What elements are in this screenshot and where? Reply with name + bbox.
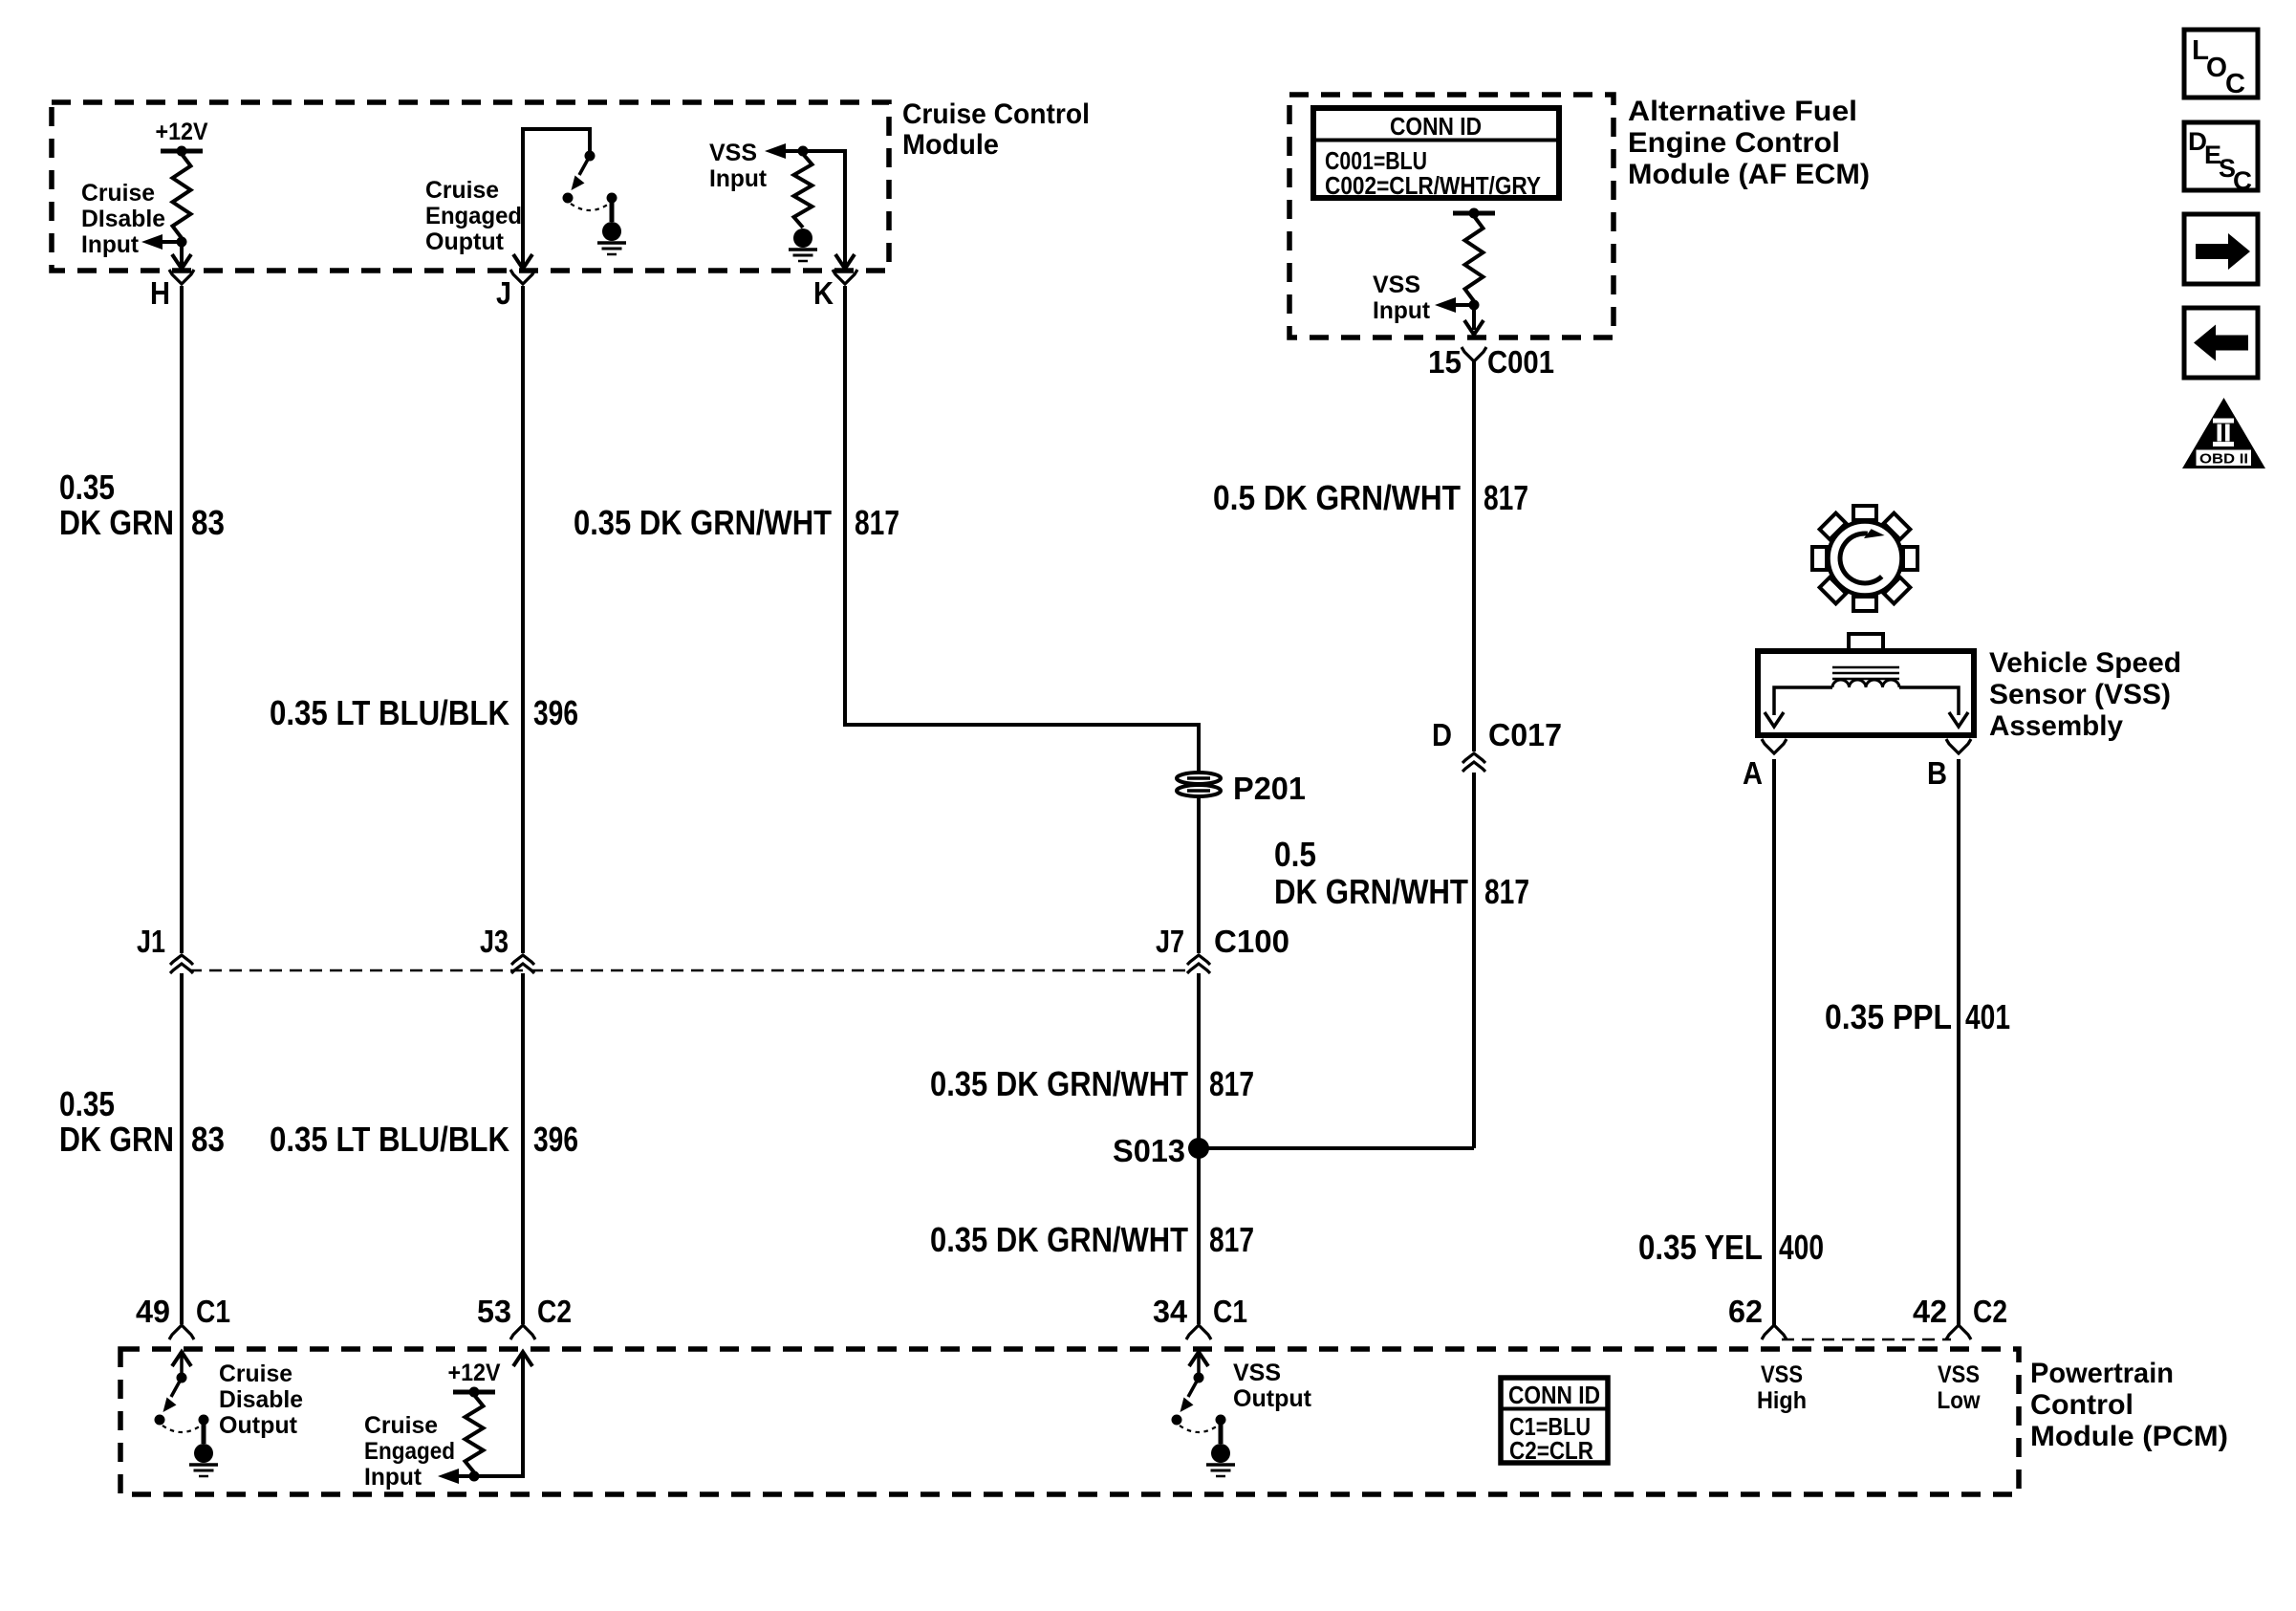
- svg-text:C: C: [2233, 166, 2252, 195]
- connector pin 15 of C001: [1462, 347, 1486, 361]
- connector pin 53 of PCM C2: [510, 1325, 535, 1339]
- node: cruise disable input junction: [177, 237, 187, 248]
- svg-text:Cruise: Cruise: [425, 177, 499, 204]
- resistor R-cruise-engaged (PCM): [466, 1395, 484, 1472]
- svg-text:Disable: Disable: [219, 1386, 303, 1413]
- svg-text:J: J: [496, 275, 511, 311]
- arrow: VSS Input (points left): [765, 143, 786, 159]
- connector pin 42 of PCM C2: [1946, 1325, 1971, 1339]
- VSS assembly body box: [1758, 651, 1974, 735]
- svg-text:817: 817: [1209, 1064, 1254, 1103]
- resistor R-cruise-disable (pull-up): [173, 154, 191, 238]
- connector pin H of C-cruise: [169, 270, 194, 284]
- svg-text:Module (PCM): Module (PCM): [2030, 1421, 2228, 1452]
- arrow: Cruise Disable Input (points left): [141, 234, 162, 250]
- svg-text:C001: C001: [1487, 344, 1554, 380]
- connector C017 inline (double chevron): [1462, 753, 1485, 763]
- svg-text:Cruise Control: Cruise Control: [902, 98, 1090, 130]
- svg-text:+12V: +12V: [156, 119, 208, 145]
- arrow to pin A (down): [1765, 712, 1784, 727]
- node: VSS input junction (AF ECM): [1469, 300, 1480, 311]
- svg-text:C2: C2: [537, 1294, 572, 1329]
- svg-text:83: 83: [191, 1120, 225, 1159]
- svg-text:Cruise: Cruise: [81, 180, 155, 207]
- arrow into J pin (down): [513, 254, 532, 269]
- resistor R-vss-input (AF ECM): [1465, 216, 1484, 301]
- junction dot on +12V rail (PCM): [469, 1387, 480, 1398]
- wire: J output top segment: [523, 129, 590, 271]
- svg-text:0.35: 0.35: [59, 468, 115, 507]
- wire 817: C017 down to S013 corner: [1472, 773, 1476, 1148]
- wire: pin49 arrow to switch pivot: [180, 1352, 184, 1375]
- svg-text:Module (AF ECM): Module (AF ECM): [1628, 159, 1870, 190]
- grommet P201: [1177, 773, 1221, 796]
- svg-text:Engaged: Engaged: [425, 203, 522, 229]
- svg-text:62: 62: [1728, 1294, 1763, 1329]
- svg-text:Vehicle Speed: Vehicle Speed: [1989, 647, 2181, 679]
- connector pin 62 of PCM: [1762, 1325, 1787, 1339]
- wire: pin34 arrow to switch pivot: [1197, 1352, 1201, 1375]
- module box: Alternative Fuel Engine Control Module (dashed): [1289, 95, 1614, 337]
- svg-text:396: 396: [533, 1120, 578, 1159]
- svg-text:0.35: 0.35: [59, 1084, 115, 1123]
- arrow into H pin (down): [172, 254, 191, 269]
- svg-text:DK GRN/WHT: DK GRN/WHT: [1274, 872, 1468, 911]
- svg-text:J3: J3: [480, 924, 509, 959]
- table: CONN ID (AF ECM): [1313, 108, 1559, 198]
- connector pin J of C-cruise: [510, 270, 535, 284]
- svg-text:42: 42: [1913, 1294, 1947, 1329]
- svg-text:D: D: [1432, 717, 1452, 752]
- svg-text:Output: Output: [219, 1412, 298, 1439]
- module box: Powertrain Control Module (dashed): [120, 1349, 2019, 1494]
- wire 817: S013 down to PCM pin 34: [1197, 1148, 1201, 1324]
- svg-text:401: 401: [1965, 997, 2010, 1036]
- switch: cruise disable output (PCM): [177, 1373, 187, 1383]
- svg-text:B: B: [1927, 755, 1947, 791]
- wire: H pin drop inside module: [180, 242, 184, 266]
- svg-text:Output: Output: [1233, 1385, 1312, 1412]
- svg-text:15: 15: [1428, 344, 1462, 380]
- svg-text:VSS: VSS: [1761, 1361, 1803, 1388]
- switch: VSS output (PCM): [1194, 1373, 1204, 1383]
- wire 817: K pin down then right to P201 drop: [845, 286, 1199, 773]
- svg-text:DK GRN: DK GRN: [59, 503, 174, 542]
- svg-text:817: 817: [1484, 872, 1529, 911]
- svg-text:C2: C2: [1973, 1294, 2007, 1329]
- arrow into PCM pin 53 (up): [513, 1352, 532, 1366]
- svg-text:DIsable: DIsable: [81, 206, 165, 232]
- svg-text:817: 817: [1209, 1220, 1254, 1259]
- VSS pole piece lines: [1832, 666, 1899, 669]
- svg-text:A: A: [1743, 755, 1763, 791]
- arrow into pin 15 (down): [1464, 320, 1484, 335]
- svg-text:34: 34: [1153, 1294, 1188, 1329]
- VSS sensor tab: [1849, 634, 1883, 651]
- svg-text:OBD II: OBD II: [2199, 452, 2248, 468]
- svg-text:Low: Low: [1938, 1387, 1981, 1414]
- connector J7 inline (double chevron): [1187, 955, 1210, 965]
- table: CONN ID (PCM): [1501, 1378, 1608, 1463]
- svg-text:Control: Control: [2030, 1389, 2134, 1421]
- svg-text:Assembly: Assembly: [1989, 710, 2123, 742]
- svg-text:Powertrain: Powertrain: [2030, 1358, 2174, 1389]
- svg-text:Ouptut: Ouptut: [425, 229, 505, 255]
- icon: LOC box: [2184, 30, 2258, 98]
- wire: S013 horizontal branch: [1199, 1146, 1474, 1150]
- wire: coil right lead to pin B: [1899, 687, 1959, 715]
- wire 817: J7 down to S013: [1197, 973, 1201, 1148]
- arrow to pin B (down): [1949, 712, 1968, 727]
- svg-text:49: 49: [136, 1294, 170, 1329]
- rail: VSS input pull-up (AF ECM): [1453, 211, 1495, 216]
- svg-text:817: 817: [855, 503, 899, 542]
- svg-text:Input: Input: [1373, 297, 1431, 324]
- junction dot on VSS input line: [798, 146, 809, 157]
- icon: forward arrow box: [2184, 214, 2258, 284]
- svg-text:Module: Module: [902, 129, 999, 161]
- svg-text:53: 53: [477, 1294, 511, 1329]
- +12V rail (PCM): [453, 1390, 495, 1395]
- wire: to VSS input arrow: [784, 149, 807, 153]
- connector pin B of VSS: [1946, 739, 1971, 753]
- svg-text:C2=CLR: C2=CLR: [1509, 1436, 1593, 1465]
- inductor coil: VSS pickup: [1832, 680, 1899, 687]
- svg-text:+12V: +12V: [448, 1360, 501, 1386]
- wire 817: C001 pin 15 down to C017: [1472, 359, 1476, 751]
- wire: coil left lead to pin A: [1774, 687, 1832, 715]
- svg-text:Engaged: Engaged: [364, 1438, 455, 1465]
- svg-text:J1: J1: [137, 924, 165, 959]
- svg-text:VSS: VSS: [1938, 1361, 1980, 1388]
- svg-text:O: O: [2206, 53, 2227, 83]
- svg-text:C1: C1: [196, 1294, 230, 1329]
- arrow into K pin (down): [835, 254, 855, 269]
- arrow into PCM pin 49 (up): [172, 1352, 191, 1366]
- svg-text:Cruise: Cruise: [364, 1412, 438, 1439]
- icon: back arrow box: [2184, 308, 2258, 378]
- wire 396: J pin down to J3: [521, 286, 525, 953]
- wire: junction to left arrow (PCM): [457, 1474, 474, 1478]
- arrow: VSS Input AF ECM (points left): [1435, 297, 1456, 313]
- svg-text:H: H: [150, 275, 170, 311]
- splice S013: [1188, 1138, 1209, 1159]
- svg-text:VSS: VSS: [709, 140, 757, 166]
- gear: VSS reluctor wheel: [1812, 506, 1917, 611]
- svg-text:Engine Control: Engine Control: [1628, 127, 1840, 159]
- wire: K VSS input top segment: [807, 151, 845, 271]
- svg-text:396: 396: [533, 693, 578, 732]
- svg-text:C002=CLR/WHT/GRY: C002=CLR/WHT/GRY: [1325, 171, 1541, 200]
- svg-text:P201: P201: [1233, 771, 1306, 806]
- ground: cruise module VSS input: [793, 229, 812, 248]
- svg-text:C1: C1: [1213, 1294, 1247, 1329]
- svg-text:0.35 LT BLU/BLK: 0.35 LT BLU/BLK: [270, 693, 509, 732]
- wire 83: H pin down to J1: [180, 286, 184, 953]
- svg-text:0.35 LT BLU/BLK: 0.35 LT BLU/BLK: [270, 1120, 509, 1159]
- svg-text:J7: J7: [1156, 924, 1184, 959]
- wire: junction to left arrow (AF ECM): [1455, 303, 1474, 307]
- svg-text:0.35 PPL: 0.35 PPL: [1825, 997, 1952, 1036]
- wire 401: VSS pin B down to PCM pin 42: [1957, 759, 1960, 1326]
- junction dot on +12V rail: [177, 146, 187, 157]
- resistor R-vss-input (cruise module): [794, 154, 812, 228]
- connector pin K of C-cruise: [833, 270, 857, 284]
- svg-text:VSS: VSS: [1373, 272, 1420, 298]
- connector J3 inline (double chevron): [511, 955, 534, 965]
- arrow into PCM pin 34 (up): [1189, 1352, 1208, 1366]
- svg-text:DK GRN: DK GRN: [59, 1120, 174, 1159]
- svg-text:817: 817: [1484, 478, 1528, 517]
- wire: junction right and up to pin 53: [474, 1352, 523, 1476]
- node: cruise engaged input junction: [469, 1471, 480, 1482]
- connector pin 49 of PCM C1: [169, 1325, 194, 1339]
- junction dot on rail (AF ECM): [1469, 208, 1480, 219]
- module box: Cruise Control Module (dashed): [52, 102, 889, 271]
- svg-text:0.35 DK GRN/WHT: 0.35 DK GRN/WHT: [930, 1064, 1188, 1103]
- svg-text:Cruise: Cruise: [219, 1361, 292, 1387]
- connector J1 inline (double chevron): [170, 955, 193, 965]
- connector pin 34 of PCM C1: [1186, 1325, 1211, 1339]
- svg-text:Sensor (VSS): Sensor (VSS): [1989, 679, 2171, 710]
- svg-text:CONN ID: CONN ID: [1390, 112, 1482, 141]
- svg-text:0.35 DK GRN/WHT: 0.35 DK GRN/WHT: [930, 1220, 1188, 1259]
- harness connector C100 (dashed pass-through line): [189, 969, 1191, 972]
- svg-text:C100: C100: [1214, 924, 1289, 959]
- svg-text:400: 400: [1779, 1228, 1824, 1267]
- wire 817: P201 down to J7: [1197, 796, 1201, 953]
- svg-text:S013: S013: [1113, 1133, 1185, 1168]
- wire 83: J1 down to PCM pin 49: [180, 973, 184, 1324]
- svg-text:VSS: VSS: [1233, 1360, 1281, 1386]
- wire: drop to pin 15: [1472, 305, 1476, 330]
- svg-text:0.35 DK GRN/WHT: 0.35 DK GRN/WHT: [574, 503, 832, 542]
- icon: DESC box: [2184, 122, 2258, 190]
- svg-text:0.5: 0.5: [1274, 835, 1316, 874]
- svg-text:K: K: [813, 275, 834, 311]
- dashed link between pins 62 and 42: [1782, 1339, 1951, 1341]
- wire 396: J3 down to PCM pin 53: [521, 973, 525, 1324]
- svg-text:Input: Input: [709, 165, 768, 192]
- svg-text:CONN ID: CONN ID: [1508, 1381, 1600, 1409]
- svg-text:83: 83: [191, 503, 225, 542]
- +12V rail: [161, 149, 203, 154]
- wire: junction to left arrow: [161, 240, 182, 244]
- table header: CONN ID: [1313, 139, 1559, 142]
- table header: CONN ID (PCM): [1501, 1407, 1608, 1411]
- connector pin A of VSS: [1762, 739, 1787, 753]
- svg-text:High: High: [1757, 1387, 1807, 1414]
- svg-text:C: C: [2225, 69, 2245, 99]
- wire 400: VSS pin A down to PCM pin 62: [1772, 759, 1776, 1326]
- icon: OBD II triangle: [2182, 398, 2265, 468]
- arrow: Cruise Engaged Input (points left): [438, 1469, 459, 1484]
- svg-text:C017: C017: [1488, 717, 1562, 752]
- switch: cruise engaged output: [585, 151, 596, 162]
- svg-text:0.5 DK GRN/WHT: 0.5 DK GRN/WHT: [1213, 478, 1461, 517]
- svg-text:Alternative Fuel: Alternative Fuel: [1628, 96, 1857, 127]
- svg-text:Input: Input: [81, 231, 140, 258]
- svg-text:Input: Input: [364, 1464, 422, 1491]
- svg-text:0.35 YEL: 0.35 YEL: [1638, 1228, 1763, 1267]
